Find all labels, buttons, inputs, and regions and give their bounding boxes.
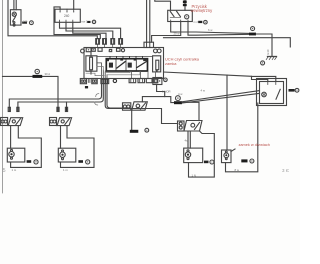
- UCH bottom pin connector C: [101, 79, 109, 83]
- svg-text:4 w: 4 w: [178, 92, 183, 96]
- svg-text:1: 1: [7, 27, 9, 31]
- resistor in left sub-box: [90, 57, 93, 70]
- drops from relay block to bottom right pins: [132, 72, 156, 79]
- wire feed from top into module 240: [73, 0, 75, 9]
- switch contact in S1: [13, 17, 16, 21]
- wire bus1 UCH to left assemblies: [9, 84, 101, 108]
- lock unit U4 box: [222, 150, 232, 163]
- screen circle M near ground: [261, 61, 265, 65]
- wire A0 up to connector blob B3: [142, 97, 174, 103]
- inner top rail of UCH: [97, 55, 153, 57]
- relay cell divider 2: [125, 60, 127, 71]
- relay cell 2 contact: [117, 62, 125, 68]
- wire top-left feed into switch S1 pin1: [13, 0, 15, 10]
- module 240 (relay box): [55, 9, 80, 22]
- wire S2a 240 pin to UCH pin: [66, 22, 113, 38]
- svg-text:30 A: 30 A: [45, 72, 51, 76]
- small box 2 on UCH top edge: [92, 48, 96, 51]
- pin ticks P: [171, 20, 188, 22]
- wire from left border down to assembly A2 (30A feed): [3, 76, 59, 107]
- wire top-left feed into switch S1 pin2: [15, 0, 17, 10]
- UCH top pin connector 1: [96, 39, 100, 45]
- motor M3 box: [184, 148, 203, 163]
- svg-text:zamek w drzwiach: zamek w drzwiach: [239, 143, 270, 147]
- connector circle right of S1: [30, 21, 34, 25]
- wire S0 from off-page left around to UCH pin row: [8, 0, 97, 39]
- pin tick mid top: [109, 49, 111, 51]
- connector blob pair on P feed b: [183, 1, 187, 4]
- svg-text:240: 240: [64, 14, 70, 18]
- relay block corner marks: [107, 59, 109, 61]
- switch S1 (door pillar switch): [10, 10, 21, 25]
- small box on UCH top edge: [86, 48, 91, 52]
- connector blob right of R: [289, 89, 295, 92]
- latch assembly A2 pins: [57, 107, 59, 111]
- connector circle right of M3: [210, 160, 214, 164]
- connector blob right of M3: [204, 161, 209, 164]
- wire value labels group: [3, 14, 290, 177]
- motor M2: [60, 152, 65, 157]
- mass blob below UCH: [85, 86, 88, 88]
- UCH bottom pin connector A: [80, 79, 86, 84]
- dark squares on relay block top edge: [120, 59, 123, 61]
- lamp symbol in S1: [12, 12, 16, 16]
- lamp in R: [262, 92, 267, 97]
- red annotation: Przycisk wewnetrzny: [165, 4, 270, 147]
- page left border: [2, 0, 4, 193]
- svg-text:1 m: 1 m: [63, 168, 68, 172]
- motor M2 box: [58, 148, 76, 162]
- connector circle right of U4: [250, 159, 254, 163]
- latch assembly A2 actuator: [57, 118, 72, 126]
- wire P pin to right connector upper: [171, 22, 249, 34]
- connector circle right of M1: [34, 160, 38, 164]
- contact in R: [276, 89, 280, 99]
- wires A2m to motor M3: [188, 131, 190, 148]
- connector circle right of M2: [86, 160, 90, 164]
- connector blob B3: [174, 101, 182, 104]
- svg-text:5 NOR: 5 NOR: [162, 89, 171, 93]
- comb ticks below rail: [110, 56, 143, 58]
- connector blob right of U4: [241, 159, 247, 162]
- svg-text:240: 240: [23, 20, 28, 24]
- wires A2 to motor M2: [60, 126, 62, 149]
- latch assembly A1 pins: [8, 107, 10, 111]
- connector blob right of S1: [22, 22, 27, 24]
- wire S3a 240 pin to UCH pin: [73, 22, 106, 38]
- right door switch box R outer: [257, 79, 287, 106]
- wire B3 continuation to A2m drop: [182, 102, 199, 120]
- UCH left sub-box: [86, 56, 97, 71]
- motor M1 box: [7, 148, 25, 162]
- UCH inner relay block: [106, 59, 147, 71]
- motor M1: [9, 152, 14, 157]
- UCH top pin connector 3: [111, 39, 115, 45]
- wire A1 branch down to lock unit U4: [226, 75, 228, 150]
- motor M3: [185, 152, 190, 157]
- svg-text:3 Є: 3 Є: [282, 168, 290, 173]
- relay cell 3 coil: [128, 63, 132, 68]
- sensor box S5 below UCH right: [153, 78, 162, 85]
- stubs pins to UCH top: [98, 44, 121, 47]
- wire B2 to ground E10: [256, 34, 272, 56]
- svg-text:4 w: 4 w: [201, 89, 206, 93]
- svg-text:1 N: 1 N: [192, 173, 196, 177]
- small pin between: [88, 79, 90, 83]
- ground E10: [268, 56, 277, 58]
- wire w_d UCH to latch assembly A0: [107, 84, 123, 108]
- contacts inside P: [170, 11, 180, 16]
- wire P pin left to UCH pin (20 w): [152, 22, 181, 43]
- svg-text:mw 2: mw 2: [81, 21, 88, 24]
- circle above B3: [176, 96, 181, 101]
- extra pin circle on UCH top edge: [121, 49, 124, 52]
- latch assembly A2 connector circles: [50, 118, 57, 126]
- relay cell divider 1: [115, 60, 117, 71]
- wire w_c UCH to latch assembly A2m: [105, 84, 177, 124]
- UCH top pin connector 4: [119, 39, 123, 45]
- wire S1a 240 pin to UCH pin: [60, 22, 121, 38]
- UCH bottom pin boxes right: [129, 79, 136, 83]
- circle right of B4: [145, 128, 149, 132]
- wire A right feed: [164, 72, 268, 82]
- connector circle right of 240: [92, 20, 95, 23]
- fuse blob on 30A feed: [33, 75, 43, 78]
- circles at UCH top right: [154, 49, 158, 53]
- corner deco nest: [95, 94, 99, 105]
- connector blob right of P: [198, 21, 202, 23]
- connector blob right of M2: [78, 160, 83, 163]
- relay cell 1 coil: [109, 63, 113, 68]
- svg-text:6 w: 6 w: [208, 28, 213, 32]
- wire feed P switch pin a from top edge run: [155, 0, 171, 10]
- svg-text:8 w: 8 w: [235, 168, 240, 172]
- right door switch box R inner: [260, 82, 284, 104]
- svg-text:wewnętrzny: wewnętrzny: [191, 8, 214, 13]
- circle at UCH top-left outside: [81, 49, 85, 53]
- UCH outer box: [84, 48, 164, 79]
- fan wires B3 to right door switch: [182, 91, 260, 103]
- svg-text:zamka: zamka: [165, 61, 177, 66]
- latch assembly A1 actuator: [8, 118, 23, 126]
- connector blob right of M1: [27, 160, 32, 163]
- switch P (interior lock button): [168, 10, 193, 21]
- circle above fuse blob: [35, 69, 39, 73]
- UCH top-right pin connector for long pair: [144, 42, 154, 47]
- svg-text:1 m: 1 m: [12, 168, 17, 172]
- connector circle above B2: [251, 27, 255, 31]
- relay cell divider 3: [135, 60, 137, 71]
- wire A0 down to blob B4: [131, 110, 133, 130]
- wire W wrap from 240 top pin to UCH pin: [54, 7, 100, 39]
- connector circle right of P: [204, 20, 208, 24]
- wire bus2 UCH to left assemblies: [18, 84, 103, 108]
- wire feed P switch pin b: [184, 0, 186, 10]
- UCH bottom pin connector B: [92, 79, 97, 84]
- connector blob B4: [130, 130, 139, 133]
- dark circle pin D: [113, 79, 116, 82]
- UCH right sub-box: [153, 56, 161, 72]
- resistor in right sub-box: [156, 60, 159, 69]
- pin at S1 bottom edge: [13, 24, 15, 26]
- svg-text:5: 5: [3, 168, 6, 174]
- latch assembly A0 connector circles: [123, 103, 131, 110]
- wire A branch upper: [252, 76, 276, 81]
- wire P pin to right connector lower: [188, 22, 249, 36]
- extra pin box on UCH top edge: [117, 48, 121, 51]
- internal step wires bottom of UCH: [97, 63, 107, 84]
- wires A1 to motor M1: [10, 126, 12, 149]
- connector circle right of S5: [164, 78, 168, 82]
- bus2 drop to assembly A2: [66, 102, 68, 107]
- wires long pair from top into UCH connector: [147, 0, 150, 42]
- svg-text:E10: E10: [266, 49, 270, 54]
- small box 3 on UCH top edge: [98, 48, 102, 52]
- svg-text:m 2: m 2: [194, 21, 199, 24]
- latch assembly A2m actuator: [184, 121, 202, 132]
- connector circle right of R: [295, 88, 299, 92]
- pin ticks module 240: [60, 9, 74, 22]
- latch assembly A0 actuator: [132, 102, 148, 110]
- connector blob right of 240: [87, 21, 90, 23]
- long wire H1 from UCH to right: [164, 38, 291, 47]
- wire S5 staircase down to B3 wire: [157, 85, 165, 97]
- wire R bottom down and loop to U4: [226, 103, 258, 172]
- motor M4: [224, 153, 229, 158]
- relay cell 4 contact: [137, 62, 146, 68]
- UCH top pin connector 2: [103, 39, 107, 45]
- svg-text:20 w: 20 w: [174, 32, 181, 36]
- connector blob B2 top right: [249, 33, 256, 36]
- latch assembly A1 connector circles: [1, 118, 8, 126]
- latch assembly A2m connector circles: [178, 121, 185, 131]
- arrow mark at U4: [231, 149, 235, 152]
